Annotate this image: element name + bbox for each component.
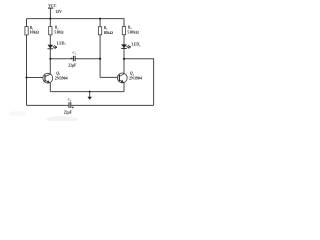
wire bottom C2 net right	[71, 104, 153, 106]
VCC symbol	[49, 8, 51, 19]
svg-text:LED2: LED2	[132, 43, 142, 48]
node Q2 collector / feedback	[123, 58, 125, 60]
wire second branch vertical (R2/LED1/Q1 column)	[49, 19, 51, 75]
node R1 / Q1 base	[26, 77, 28, 79]
node ground rail	[89, 91, 91, 93]
svg-text:12V: 12V	[55, 10, 62, 14]
resistor R4	[122, 26, 139, 35]
svg-text:2N3904: 2N3904	[55, 76, 68, 81]
wire bottom C2 net left	[27, 104, 69, 106]
wire Q2 emitter drop	[123, 83, 125, 92]
transistor Q1	[43, 71, 68, 83]
capacitor C1	[68, 51, 77, 68]
svg-text:C1: C1	[73, 51, 77, 56]
svg-text:510Ω: 510Ω	[54, 30, 64, 35]
svg-text:22μF: 22μF	[68, 64, 77, 68]
ground	[88, 92, 92, 100]
wire C1 coupling net	[50, 58, 73, 60]
svg-text:VCC: VCC	[48, 4, 56, 8]
wire C1 to R3 node	[76, 58, 101, 60]
svg-text:10kΩ: 10kΩ	[103, 30, 114, 35]
svg-text:510kΩ: 510kΩ	[127, 30, 139, 35]
wire top supply rail	[27, 18, 125, 20]
capacitor C2	[64, 98, 74, 115]
svg-text:2N3904: 2N3904	[129, 75, 142, 80]
svg-text:C2: C2	[68, 98, 72, 103]
wire R3 branch vertical	[99, 19, 101, 78]
node R3 / C1	[99, 58, 101, 60]
wire Q2 base horizontal	[100, 76, 119, 78]
svg-text:10kΩ: 10kΩ	[29, 30, 40, 35]
svg-text:LED1: LED1	[57, 42, 67, 47]
transistor Q2	[117, 72, 141, 83]
svg-text:22μF: 22μF	[64, 111, 73, 115]
LED LED2	[121, 43, 141, 49]
wire ground rail	[50, 91, 124, 93]
wire R4/LED2/Q2 column	[123, 19, 125, 75]
wire Q1 emitter drop	[49, 83, 51, 92]
wire left branch vertical (R1 column)	[26, 19, 28, 106]
node Q1 collector / C1	[49, 58, 51, 60]
resistor R3	[98, 26, 113, 35]
LED LED1	[48, 42, 67, 50]
resistor R1	[25, 26, 40, 35]
resistor R2	[49, 26, 65, 35]
wire feedback right top	[124, 59, 154, 106]
wire Q1 base horizontal	[27, 77, 46, 79]
node rail / R3 junction	[99, 18, 101, 20]
node VCC rail / R2 junction	[49, 18, 51, 20]
